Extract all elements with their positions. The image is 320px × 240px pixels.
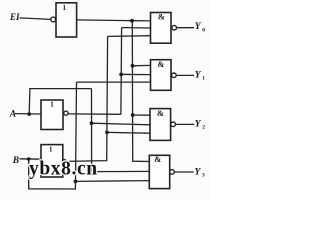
wire U2 input3 (net B) (77, 81, 151, 83)
wire Y2 output (175, 123, 194, 125)
wire U1 input2 (net A-bar) (122, 27, 151, 29)
wire B riser (29, 82, 77, 189)
wire B input (20, 158, 42, 160)
node A input tap (27, 112, 31, 116)
wire EI output to gate U1 input1 (net E) (77, 20, 151, 21)
svg-text:1: 1 (49, 145, 53, 153)
nand U1 (Y0) (151, 13, 172, 44)
wire Y1 output (176, 74, 194, 76)
nand U2 (Y1) (151, 60, 172, 91)
wire A-bar riser (120, 28, 123, 115)
svg-text:&: & (158, 12, 165, 22)
svg-text:&: & (154, 154, 161, 164)
bubble U3 output (171, 122, 176, 127)
svg-text:Y: Y (195, 167, 202, 177)
wire A vertical bus (92, 89, 150, 172)
wire E vertical bus (132, 21, 149, 162)
bubble G2 output (64, 111, 68, 115)
bubble U2 output (172, 73, 177, 78)
node E to U2 (131, 64, 135, 68)
svg-text:Y: Y (195, 70, 202, 80)
node B to U4 (74, 180, 78, 184)
svg-text:0: 0 (202, 28, 205, 34)
svg-text:EI: EI (9, 12, 20, 22)
svg-text:Y: Y (195, 22, 202, 32)
bubble U1 output (172, 25, 177, 30)
svg-text:1: 1 (62, 4, 66, 12)
wire Y3 output (174, 171, 194, 173)
nand U3 (Y2) (150, 109, 171, 141)
node E junction (130, 19, 134, 23)
wire U3 input2 (net A) (92, 123, 151, 125)
node A to U3 (90, 121, 94, 125)
node B-bar to U3 (105, 131, 109, 135)
svg-text:A: A (9, 110, 16, 120)
node B input tap (27, 157, 31, 161)
wire U2 input2 (net A-bar) (121, 73, 150, 75)
wire A-bar output (68, 113, 121, 115)
svg-text:1: 1 (202, 76, 205, 82)
wire Y0 output (177, 27, 195, 29)
bubble G1 input (51, 17, 56, 22)
bubble U4 output (170, 170, 175, 175)
wire EI input (20, 18, 51, 20)
wire U1 input3 (net B-bar) (108, 35, 151, 38)
bubble G3 output (62, 160, 66, 164)
wire U3 input3 (net B-bar) (107, 131, 150, 134)
svg-text:B: B (12, 156, 19, 166)
wire U4 input3 (net B) (76, 180, 150, 183)
svg-text:Y: Y (195, 120, 202, 130)
inverter G2 (A) (41, 100, 63, 130)
node A-bar to U2 (119, 73, 123, 77)
svg-text:3: 3 (202, 173, 205, 179)
node E to U3 (131, 113, 135, 117)
svg-text:&: & (157, 108, 164, 118)
inverter G1 (EI) (56, 3, 77, 37)
nand U4 (Y3) (149, 155, 169, 188)
wire B-bar riser (66, 36, 107, 161)
wire A input (15, 113, 41, 115)
inverter G3 (B) (41, 145, 63, 177)
wire U3 input1 (net E) (133, 114, 150, 116)
wire A riser (29, 89, 91, 115)
svg-text:1: 1 (50, 101, 54, 109)
svg-text:2: 2 (202, 125, 205, 131)
svg-text:ybx8.cn: ybx8.cn (29, 158, 98, 179)
wire U2 input1 (net E) (133, 64, 151, 66)
svg-text:&: & (157, 59, 164, 69)
